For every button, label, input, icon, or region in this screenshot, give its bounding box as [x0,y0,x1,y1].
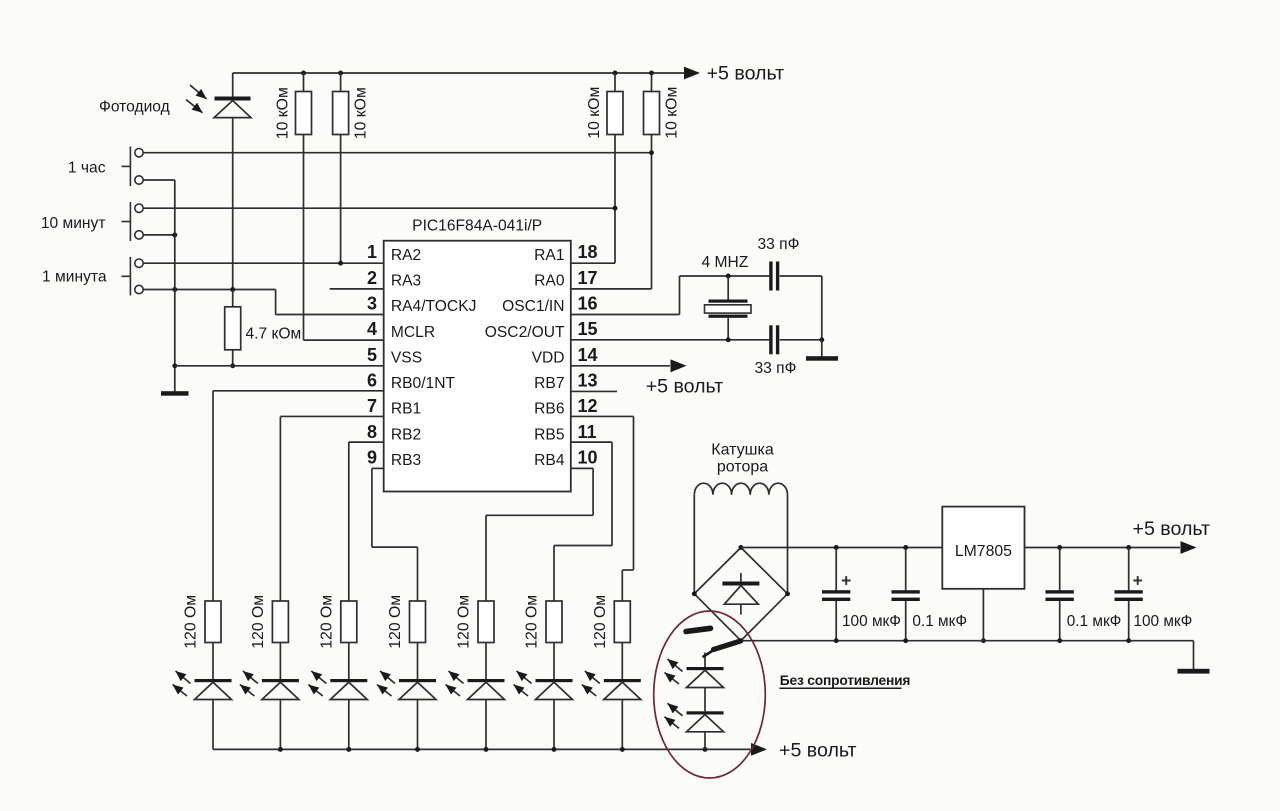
wire S3 lower row to RA4 pin3 [143,289,275,291]
svg-text:4.7 кОм: 4.7 кОм [246,326,302,343]
resistor R5 4.7 кОм [232,290,234,307]
svg-text:10 кОм: 10 кОм [664,87,681,139]
arrow +5 вольт LED rail [751,743,767,756]
node R2-RA2 [338,261,343,266]
svg-text:120 Ом: 120 Ом [318,595,335,649]
node rail [346,747,351,752]
svg-text:RB1: RB1 [391,401,421,418]
bridge rectifier VD1 [694,548,787,641]
svg-text:ротора: ротора [717,459,768,476]
wire LED D4 to rail [348,700,350,750]
svg-text:RB0/1NT: RB0/1NT [391,375,456,392]
wire LM7805 ground pin [982,589,984,641]
pin 12 RB6 wire to R12 [571,415,634,417]
node C6 top [1126,545,1131,550]
wire R12 to LED [621,643,623,680]
node C5 top [1057,545,1062,550]
wire +5V output rail [1025,547,1181,549]
wire R10 to LED [485,643,487,680]
svg-text:17: 17 [578,268,598,288]
svg-text:14: 14 [578,345,598,365]
svg-text:11: 11 [578,422,597,442]
resistor R9 120 Ом [410,601,426,643]
wire C1 to ground corner [780,275,822,277]
svg-text:6: 6 [367,370,377,390]
wire DC+ rail to LM7805 [741,547,942,549]
pin 14 VDD wire [571,365,670,367]
wire LED D8 to rail [621,700,623,750]
photodiode arrows [190,85,207,99]
capacitor C6 100 мкФ [1128,548,1130,592]
svg-text:1 минута: 1 минута [42,269,107,286]
svg-text:2: 2 [367,268,377,288]
svg-text:PIC16F84A-041i/P: PIC16F84A-041i/P [412,217,542,234]
wire DC- bottom rail [741,640,1194,642]
ground output [1178,669,1210,674]
wire S2 upper row [143,207,615,209]
svg-text:7: 7 [367,396,377,416]
resistor R11 120 Ом [546,601,562,643]
svg-text:5: 5 [367,345,377,365]
node rail [484,747,489,752]
capacitor C1 33 пФ [769,262,772,291]
svg-text:VDD: VDD [532,349,565,366]
node C4 top [903,545,908,550]
svg-text:RA0: RA0 [534,272,565,289]
wire R3 to RA1 pin18 [614,135,616,264]
svg-text:OSC2/OUT: OSC2/OUT [485,324,565,341]
wire C2 to ground corner [780,339,822,341]
wire photodiode anode down [232,118,234,290]
node photodiode-R5 [230,287,235,292]
node bus S2 [172,232,177,237]
svg-text:10 кОм: 10 кОм [586,87,603,139]
wire D10 to rail [704,732,706,750]
svg-text:120 Ом: 120 Ом [456,595,473,649]
wire R1 to MCLR pin4 [303,135,305,341]
pin 15 OSC2/OUT wire [571,339,770,341]
node osc ground corner [819,337,824,342]
pin 16 OSC1/IN wire [571,314,680,316]
svg-text:Фотодиод: Фотодиод [99,99,170,116]
svg-text:OSC1/IN: OSC1/IN [502,298,564,315]
svg-text:33 пФ: 33 пФ [755,360,797,377]
node crystal bottom [726,337,731,342]
crystal X1 4 MHZ [727,276,729,300]
arrow +5 вольт output [1181,541,1197,554]
node bridge left [692,591,697,596]
svg-text:12: 12 [578,396,598,416]
svg-text:LM7805: LM7805 [955,543,1012,560]
node C5 bottom [1057,638,1062,643]
resistor R4 10 кОм [651,73,653,92]
node bridge bottom [738,638,743,643]
svg-text:RA2: RA2 [391,247,421,264]
wire photodiode column [232,73,234,97]
svg-text:1 час: 1 час [68,160,106,177]
node C3 top [834,545,839,550]
switch S1 1 час [135,149,143,157]
wire S1 lower to bus [143,179,175,181]
pin 7 RB1 wire to R7 [280,415,383,417]
svg-text:1: 1 [367,242,377,262]
node bridge right [785,591,790,596]
switch S3 1 минута [135,259,143,267]
svg-text:16: 16 [578,294,598,314]
capacitor C4 0.1 мкФ [905,548,907,592]
node LM7805 gnd [981,638,986,643]
regulator U2 LM7805 [942,507,1024,589]
node top rail x=651.5 [649,71,654,76]
node top rail x=340.6 [338,71,343,76]
svg-text:Без сопротивления: Без сопротивления [780,673,911,688]
photodiode D1 [215,97,251,101]
pin 10 RB4 wire to R10 [571,467,593,469]
LED D5 [399,679,436,682]
annotation hand arrow [704,649,717,657]
svg-text:4 MHZ: 4 MHZ [702,254,749,271]
node rail [278,747,283,752]
svg-text:10 кОм: 10 кОм [353,87,370,139]
svg-text:RB5: RB5 [534,426,565,443]
pin 2 RA3 stub wire [330,288,384,290]
switch S2 10 минут [135,204,143,212]
wire +5V top rail [233,72,684,74]
resistor R6 120 Ом [205,601,221,643]
wire LED D6 to rail [485,700,487,750]
wire to osc ground [821,340,823,357]
wire LED D3 to rail [279,700,281,750]
wire R7 to LED [279,643,281,680]
LED D7 [536,679,573,682]
svg-text:+5 вольт: +5 вольт [646,376,724,398]
svg-text:+5 вольт: +5 вольт [1133,518,1211,540]
svg-text:120 Ом: 120 Ом [250,595,267,649]
svg-text:120 Ом: 120 Ом [183,595,200,649]
svg-text:13: 13 [578,370,598,390]
node rail [552,747,557,752]
LED D9 [687,667,724,670]
svg-text:RA1: RA1 [534,247,564,264]
svg-text:10 минут: 10 минут [41,215,106,232]
svg-text:8: 8 [367,422,377,442]
LED D8 [604,679,641,682]
wire to output ground [1193,641,1195,670]
svg-text:Катушка: Катушка [711,442,774,459]
ground left [161,391,189,396]
IC U1 PIC16F84A body [384,241,571,492]
node C4 bottom [903,638,908,643]
svg-text:15: 15 [578,319,598,339]
svg-text:RA4/TOCKJ: RA4/TOCKJ [391,298,477,315]
resistor R2 10 кОм [340,73,342,92]
arrow +5 вольт VDD [671,359,687,372]
plus sign C3 [842,580,851,582]
resistor R7 120 Ом [272,601,288,643]
capacitor C2 33 пФ [769,325,772,354]
resistor R3 10 кОм [614,73,616,92]
svg-text:RB6: RB6 [534,401,564,418]
resistor R12 120 Ом [614,601,630,643]
wire R9 to LED [417,643,419,680]
svg-text:VSS: VSS [391,349,422,366]
svg-text:9: 9 [367,447,377,467]
svg-text:120 Ом: 120 Ом [387,595,404,649]
wire R2 to RA2 pin1 [340,135,342,264]
node top rail x=303.5 [301,71,306,76]
wire LED D2 to rail [212,700,214,750]
inductor L1 rotor coil [694,483,787,495]
wire VSS row pin5 [175,365,384,367]
wire LED D7 to rail [553,700,555,750]
wire D9 to D10 [704,688,706,712]
LED D6 [468,679,505,682]
node top rail x=615 [613,71,618,76]
svg-text:120 Ом: 120 Ом [524,595,541,649]
svg-text:3: 3 [367,294,377,314]
node crystal top [726,274,731,279]
svg-text:RB7: RB7 [534,375,564,392]
svg-text:18: 18 [578,242,598,262]
resistor R8 120 Ом [341,601,357,643]
ground osc [806,356,838,361]
svg-text:120 Ом: 120 Ом [592,595,609,649]
wire R4 to RA0 pin17 [651,135,653,289]
pin 6 RB0 wire to R6 [213,390,384,392]
node S1-R4 [649,150,654,155]
pin 13 RB7 stub wire [571,390,617,392]
LED D2 [195,679,232,682]
node S2-R3 [613,206,618,211]
wire LED bottom rail [213,748,752,750]
node R5-VSS [230,363,235,368]
arrow +5 вольт top [684,67,700,80]
wire R6 to LED [212,643,214,680]
wire S1 upper row [143,152,651,154]
node rail [415,747,420,752]
annotation red ellipse [654,611,766,778]
wire switch common bus [174,180,176,392]
LED D3 [262,679,299,682]
svg-text:MCLR: MCLR [391,324,435,341]
svg-text:100 мкФ: 100 мкФ [842,613,901,630]
svg-text:4: 4 [367,319,377,339]
capacitor C3 100 мкФ [835,548,837,592]
pin 9 RB3 wire to R9 [372,467,384,469]
wire R11 to LED [553,643,555,680]
pin 8 RB2 wire to R8 [349,441,384,443]
node C3 bottom [834,638,839,643]
node rail [620,747,625,752]
pin 11 RB5 wire to R11 [571,441,612,443]
node C6 bottom [1126,638,1131,643]
wire LED D5 to rail [417,700,419,750]
LED D10 [687,711,724,714]
node bus VSS [172,363,177,368]
node rail series LEDs [703,747,708,752]
svg-text:10 кОм: 10 кОм [275,87,292,139]
svg-text:RB4: RB4 [534,452,565,469]
svg-text:RA3: RA3 [391,272,421,289]
resistor R1 10 кОм [303,73,305,92]
svg-text:10: 10 [578,447,598,467]
plus sign C6 [1133,580,1142,582]
resistor R10 120 Ом [478,601,494,643]
bridge inner diode [740,573,742,581]
svg-text:33 пФ: 33 пФ [758,236,800,253]
svg-text:RB2: RB2 [391,426,421,443]
wire S3 upper row to RA2 pin1 [143,262,384,264]
wire S2 lower to bus [143,234,175,236]
LED D4 [330,679,367,682]
svg-text:RB3: RB3 [391,452,421,469]
capacitor C5 0.1 мкФ [1059,548,1061,592]
wire series LED column top [704,653,706,668]
svg-text:100 мкФ: 100 мкФ [1133,613,1192,630]
svg-text:0.1 мкФ: 0.1 мкФ [912,613,967,630]
node bridge top [738,545,743,550]
annotation hand dash [686,628,711,631]
svg-text:+5 вольт: +5 вольт [707,63,785,85]
svg-text:0.1 мкФ: 0.1 мкФ [1067,613,1122,630]
node bus S3 [172,287,177,292]
svg-text:+5 вольт: +5 вольт [779,740,857,762]
wire R8 to LED [348,643,350,680]
